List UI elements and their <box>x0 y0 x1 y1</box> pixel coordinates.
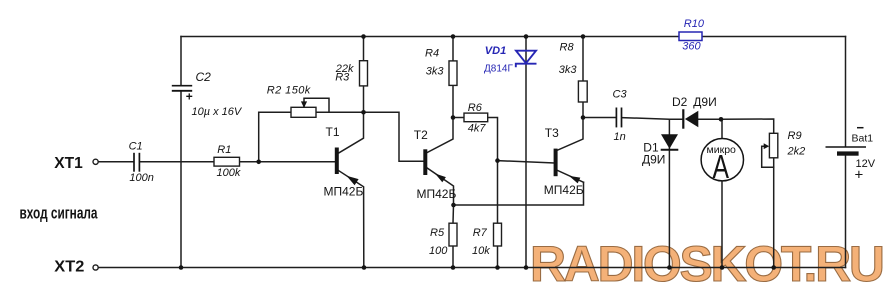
wire R6 left lead <box>453 117 464 119</box>
wire top supply rail <box>181 36 846 38</box>
wire T1 collector node to T2 base <box>364 112 424 161</box>
resistor R1 <box>214 157 240 166</box>
svg-text:D2: D2 <box>672 95 688 109</box>
svg-text:R4: R4 <box>425 48 439 60</box>
node T1 emitter on rail <box>362 265 367 270</box>
wire R5 top lead <box>452 205 455 223</box>
wire T3 collector <box>557 118 583 151</box>
transistor T3 <box>554 149 558 177</box>
svg-text:Т1: Т1 <box>326 125 340 139</box>
wire meter node to R9 <box>721 119 774 133</box>
capacitor C2 <box>172 86 192 91</box>
wire R4 bottom lead <box>452 85 454 117</box>
wire T1 collector <box>339 112 364 153</box>
svg-text:C2: C2 <box>196 70 212 84</box>
diode D2 <box>685 111 698 127</box>
svg-text:Д9И: Д9И <box>642 153 665 167</box>
node R4 bottom / T2 collector / R6 <box>451 115 456 120</box>
node T2 emitter / R5 / bus <box>451 203 456 208</box>
terminal XT2 <box>93 265 98 270</box>
node D2 / meter junction <box>719 117 724 122</box>
capacitor C3 <box>616 108 621 128</box>
svg-text:+: + <box>855 167 864 184</box>
wire R9 wiper link <box>762 146 774 167</box>
svg-text:1n: 1n <box>614 131 626 143</box>
wire C1 to R1 <box>140 161 214 163</box>
wire T1 emitter <box>338 170 364 267</box>
wire common emitter bus <box>454 182 584 205</box>
wire C3 to D2 <box>622 118 683 120</box>
wire R1 to T1 base <box>240 161 336 163</box>
svg-text:R2 150k: R2 150k <box>267 84 311 96</box>
wire T3 emitter <box>557 170 583 182</box>
node T3 base tap <box>495 158 500 163</box>
node R3 top on rail <box>361 34 366 39</box>
wire T2 collector <box>427 118 453 153</box>
svg-text:XT2: XT2 <box>54 259 84 276</box>
node R8 bottom / T3 collector / C3 <box>581 115 586 120</box>
svg-text:R3: R3 <box>335 72 350 84</box>
svg-text:100: 100 <box>429 245 448 257</box>
svg-text:RADIOSKOT.RU: RADIOSKOT.RU <box>530 236 885 292</box>
wire bottom ground rail <box>98 267 845 269</box>
svg-text:Т2: Т2 <box>414 128 428 142</box>
svg-text:3k3: 3k3 <box>559 64 578 76</box>
wire XT1 to C1 <box>98 161 133 163</box>
wire R9 bottom lead <box>773 158 775 268</box>
svg-text:C1: C1 <box>129 141 143 153</box>
wire right vertical to battery top <box>845 37 847 147</box>
svg-text:Bat1: Bat1 <box>852 133 874 145</box>
zener diode VD1 <box>516 51 537 68</box>
node R4 top on rail <box>451 34 456 39</box>
wire R7 bottom lead <box>497 246 499 268</box>
microammeter PA1 <box>701 139 743 181</box>
resistor R7 <box>494 223 502 246</box>
svg-text:А: А <box>712 148 729 185</box>
wire T2 emitter <box>427 168 453 205</box>
node VD1 top on rail <box>524 34 529 39</box>
wire R4 top lead <box>452 37 454 61</box>
wire R2 wiper link <box>304 98 329 112</box>
wire R2 right to node <box>316 111 364 113</box>
wire meter bottom lead <box>721 181 723 268</box>
wire C2 branch top <box>180 37 182 86</box>
wire T3 base <box>498 161 555 163</box>
node R1/R2/T1-base junction <box>256 160 261 165</box>
node R8 top on rail <box>581 34 586 39</box>
svg-text:МП42Б: МП42Б <box>544 183 584 197</box>
wire C2 branch bottom <box>180 91 182 267</box>
svg-text:вход сигнала: вход сигнала <box>20 204 99 222</box>
diode D1 <box>661 134 678 149</box>
svg-text:Д814Г: Д814Г <box>484 64 513 75</box>
wire R3 top lead <box>363 37 365 61</box>
rheostat R9 <box>769 133 777 158</box>
svg-text:R9: R9 <box>788 130 802 142</box>
svg-text:R5: R5 <box>430 227 445 239</box>
svg-text:МП42Б: МП42Б <box>417 187 457 201</box>
wire R2 left leg <box>259 112 291 162</box>
node R5 bottom on rail <box>451 265 456 270</box>
node meter bottom on rail <box>720 265 725 270</box>
wire battery bottom to bottom rail <box>845 156 847 268</box>
resistor R4 <box>449 61 457 86</box>
svg-text:C3: C3 <box>613 88 628 100</box>
svg-text:R10: R10 <box>684 18 705 30</box>
svg-text:100n: 100n <box>129 172 153 184</box>
battery Bat1 <box>826 146 867 148</box>
svg-text:R1: R1 <box>217 144 231 156</box>
svg-text:VD1: VD1 <box>485 45 506 57</box>
svg-text:100k: 100k <box>217 167 241 179</box>
svg-text:2k2: 2k2 <box>787 145 806 157</box>
wire D1 branch <box>668 119 670 267</box>
svg-text:МП42Б: МП42Б <box>324 185 364 199</box>
wire R6 right to R7 vertical <box>488 118 498 224</box>
svg-text:4k7: 4k7 <box>468 123 487 135</box>
wire R5 bottom lead <box>452 246 454 268</box>
node R3 bottom / T1 collector <box>361 110 366 115</box>
svg-text:3k3: 3k3 <box>426 66 445 78</box>
wire D2 to meter node <box>698 118 721 120</box>
wire R8 bottom lead <box>582 102 584 118</box>
svg-text:R7: R7 <box>473 227 488 239</box>
wire VD1 branch <box>525 37 527 268</box>
resistor R8 <box>578 81 587 102</box>
terminal XT1 <box>93 159 98 164</box>
node R9 bottom on rail <box>771 265 776 270</box>
resistor R10 <box>679 32 702 41</box>
node D1 bottom on rail <box>667 265 672 270</box>
wire R8 node to C3 <box>583 117 616 119</box>
node R7 bottom on rail <box>495 265 500 270</box>
svg-text:XT1: XT1 <box>54 155 83 172</box>
svg-text:360: 360 <box>682 41 701 53</box>
resistor R6 <box>464 113 488 122</box>
resistor R3 <box>360 61 368 86</box>
capacitor C1 <box>134 153 139 172</box>
node C2 bottom on rail <box>179 265 184 270</box>
node VD1 bottom on rail <box>524 265 529 270</box>
svg-text:Т3: Т3 <box>545 126 559 140</box>
potentiometer R2 <box>291 107 316 117</box>
svg-text:R6: R6 <box>468 102 483 114</box>
wire meter top lead <box>721 119 723 138</box>
resistor R5 <box>449 223 457 246</box>
wire R3 bottom lead <box>363 86 365 112</box>
svg-text:R8: R8 <box>560 42 575 54</box>
transistor T1 <box>335 148 339 175</box>
transistor T2 <box>423 149 427 175</box>
svg-text:Д9И: Д9И <box>693 95 716 109</box>
svg-text:10µ x 16V: 10µ x 16V <box>192 106 243 118</box>
wire R8 top lead <box>582 37 584 82</box>
svg-text:+: + <box>186 89 193 103</box>
svg-text:10k: 10k <box>472 245 490 257</box>
